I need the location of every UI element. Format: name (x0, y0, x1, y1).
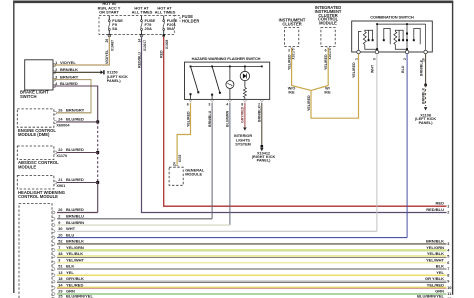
junction dot headlight module pin 21 tap (96, 181, 99, 184)
svg-text:YEL/RED: YEL/RED (427, 283, 444, 288)
svg-text:26: 26 (58, 109, 62, 113)
svg-text:26: 26 (58, 208, 62, 212)
bus junction dot pin 8 (244, 66, 246, 68)
svg-text:1: 1 (55, 61, 57, 65)
svg-text:RED/BLU: RED/BLU (137, 52, 141, 68)
svg-text:9: 9 (373, 58, 377, 60)
svg-text:BRN/BLU: BRN/BLU (66, 214, 84, 219)
LED series resistor (244, 81, 246, 88)
svg-text:YEL: YEL (436, 270, 444, 275)
svg-text:VIO/YEL: VIO/YEL (60, 60, 76, 65)
hazard pin 3 (211, 100, 214, 101)
svg-text:50A: 50A (167, 26, 174, 31)
svg-text:BLU/BRN: BLU/BRN (226, 110, 230, 127)
svg-text:PANEL): PANEL) (107, 79, 122, 83)
svg-text:26: 26 (105, 39, 109, 43)
svg-text:BLK: BLK (436, 264, 444, 269)
wire BLU/RED dashed chain segment to headlight tap (97, 153, 99, 183)
combination switch box (352, 21, 433, 52)
combination switch pin 10 connector (424, 50, 427, 53)
svg-text:6: 6 (447, 261, 449, 265)
svg-text:6: 6 (325, 49, 327, 53)
svg-text:BLU: BLU (66, 232, 74, 237)
wire BLU/RED dashed chain segment to ABS tap (97, 122, 99, 153)
svg-text:YEL/RED: YEL/RED (352, 62, 356, 78)
svg-text:51: 51 (58, 265, 62, 269)
svg-text:29: 29 (58, 290, 62, 294)
wire BLU/BRN hazard pin 4 down to row 9 (229, 103, 231, 226)
brake light switch box (25, 60, 53, 90)
svg-text:GRY/RED: GRY/RED (241, 106, 245, 123)
svg-text:GR Y/BLK: GR Y/BLK (425, 276, 444, 281)
svg-text:ALL TIMES: ALL TIMES (155, 9, 176, 14)
svg-text:7: 7 (447, 267, 449, 271)
svg-text:11: 11 (447, 292, 451, 296)
svg-text:6: 6 (187, 103, 189, 107)
bus junction dot pin 6 (190, 66, 192, 68)
connector X10487 symbol (108, 34, 111, 37)
svg-text:HAZARD WARNING FLASHER SWITCH: HAZARD WARNING FLASHER SWITCH (192, 56, 261, 61)
wire YEL/RED IICCM to junction (311, 49, 328, 91)
wire BRN/GRY brake pin 3 to ECM pin 26 (53, 80, 91, 113)
switch blade 2 (212, 66, 220, 92)
svg-text:3: 3 (58, 258, 60, 262)
svg-text:BRN/GRY: BRN/GRY (60, 75, 79, 80)
wire BLU/RED chain down to bottom row 26 (97, 183, 99, 213)
wire BLU comb pin 2 down to row 20 (406, 54, 408, 238)
svg-text:BLU/RED: BLU/RED (66, 177, 84, 182)
integrated instrument cluster control module box (321, 28, 335, 47)
instrument cluster box (285, 28, 299, 47)
svg-text:X10487: X10487 (111, 40, 115, 51)
svg-text:YEL: YEL (66, 270, 74, 275)
wire row 26 BLU/RED (52, 207, 97, 214)
switch contact stub pin 3 (211, 95, 213, 100)
fuse F9 5A (108, 20, 110, 22)
wire row 25 BLU/BRN/YEL (52, 294, 451, 298)
svg-text:10: 10 (447, 286, 451, 290)
ECM pin 24 (54, 120, 57, 123)
svg-text:YEL/WHT: YEL/WHT (426, 257, 445, 262)
ABS/DSC control module box (17, 146, 54, 160)
svg-text:BLU/RED: BLU/RED (66, 147, 84, 152)
switch blade 1 (191, 66, 199, 92)
wire row 30 WHT (52, 226, 377, 233)
svg-text:52: 52 (58, 240, 62, 244)
svg-text:CONTROL MODULE: CONTROL MODULE (18, 194, 58, 199)
wire row 20 BLU (52, 232, 407, 239)
svg-text:YEL/BLK: YEL/BLK (427, 251, 444, 256)
svg-text:RED: RED (160, 50, 164, 58)
svg-text:BLU/BRN: BLU/BRN (66, 220, 84, 225)
wire BLU/RED ECM pin 24 to chain junction (57, 121, 98, 123)
svg-text:BRN/BLU: BRN/BLU (208, 110, 212, 127)
svg-text:X1170: X1170 (56, 154, 67, 158)
combination switch left contact group (365, 30, 373, 40)
svg-text:X1008: X1008 (165, 40, 169, 49)
fuse F201 feed stub (163, 16, 165, 20)
engine control module box (17, 109, 54, 127)
brake switch pin 2 (53, 71, 56, 74)
fuse F79 lower stub (141, 31, 143, 36)
ABS pin 22 (54, 151, 57, 154)
svg-text:SYSTEM: SYSTEM (235, 143, 251, 147)
wire BRN/BLK hazard pin 2 to ground X10412 (261, 103, 263, 147)
svg-text:BRN/GRY: BRN/GRY (66, 108, 85, 113)
svg-text:IKE: IKE (288, 91, 295, 95)
svg-text:1: 1 (354, 58, 358, 60)
hazard flasher relay module box (tall dashed) (19, 204, 52, 298)
svg-text:BLU/BRN/YEL: BLU/BRN/YEL (417, 294, 444, 298)
svg-text:X60004: X60004 (56, 124, 70, 128)
svg-text:PANEL): PANEL) (257, 159, 272, 163)
ground symbol X1150 (103, 70, 104, 74)
svg-text:YEL/RED: YEL/RED (324, 54, 328, 70)
hazard pin 4 (228, 100, 231, 101)
brake switch pin 3 (53, 78, 56, 81)
wire row 3 YEL/WHT (52, 257, 449, 265)
svg-text:BRN/BLK: BRN/BLK (66, 239, 84, 244)
svg-text:25: 25 (58, 295, 62, 298)
combination switch pin 2 connector (405, 50, 408, 53)
svg-text:5: 5 (447, 255, 449, 259)
svg-text:22: 22 (58, 148, 62, 152)
fuse F79 20A (141, 20, 143, 22)
ground X10412 arrow (260, 148, 263, 151)
svg-text:BLU/RED: BLU/RED (66, 117, 84, 122)
svg-text:BRN/BLK: BRN/BLK (60, 67, 78, 72)
svg-text:20A: 20A (145, 26, 152, 31)
svg-text:3: 3 (447, 242, 449, 246)
border frame left (13, 1, 15, 293)
svg-text:VIO/YEL: VIO/YEL (105, 49, 109, 64)
wire RED fuse F201 down to bottom row (164, 37, 447, 206)
wire BLU/RED headlight pin 21 to chain junction (57, 182, 98, 184)
svg-text:13: 13 (58, 271, 62, 275)
wire row 51 BLK (52, 264, 449, 272)
headlight widening control module box (17, 176, 54, 190)
svg-text:2: 2 (403, 58, 407, 60)
fuse F9 feed stub (108, 16, 110, 20)
ground X10412 junction dot (261, 145, 264, 148)
border frame right (452, 1, 454, 295)
svg-text:X13017: X13017 (143, 40, 147, 51)
svg-text:BLK: BLK (66, 264, 74, 269)
svg-text:BRN/BLK: BRN/BLK (419, 59, 423, 76)
wire BRN/BLK brake pin 2 to ground X1150 (53, 71, 101, 73)
bus junction dot pin 3 (211, 66, 213, 68)
wire YEL/RED instrument cluster to junction (292, 49, 311, 91)
svg-text:YEL/RED: YEL/RED (287, 54, 291, 70)
svg-text:GRY/BLK: GRY/BLK (66, 276, 84, 281)
wire row 18 GRY/BLK (52, 276, 449, 284)
hazard pin 2 (260, 100, 263, 101)
splice S1008 junction dot (163, 34, 165, 36)
ECM pin 26 (54, 111, 57, 114)
general module pin 24 (176, 165, 179, 166)
ground X1108 junction dot (424, 84, 427, 87)
combination switch resistor 1 (363, 32, 366, 45)
svg-text:3: 3 (208, 103, 210, 107)
combination switch pin 9 connector (375, 50, 378, 53)
fuse holder bracket (174, 16, 180, 22)
LED symbol (244, 66, 246, 71)
general module box (169, 167, 183, 185)
svg-text:IKE: IKE (324, 91, 331, 95)
svg-text:MODULE: MODULE (18, 165, 36, 170)
wire YEL/RED junction down to combination switch pin 1 (311, 54, 359, 119)
svg-text:5A: 5A (112, 26, 117, 31)
svg-text:2: 2 (447, 211, 449, 215)
svg-text:BLU/RED: BLU/RED (66, 207, 84, 212)
svg-text:BRN/BLK: BRN/BLK (258, 105, 262, 122)
combination switch right contact group (395, 30, 403, 40)
wire row RED right segment (436, 201, 450, 209)
svg-text:YEL/RED: YEL/RED (186, 111, 190, 127)
svg-text:MODULE (DME): MODULE (DME) (18, 132, 50, 137)
svg-text:MODULE: MODULE (319, 21, 337, 26)
svg-text:BLU/BRN/YEL: BLU/BRN/YEL (66, 294, 93, 298)
fuse F9 lower stub (108, 31, 110, 36)
brake switch pin 4 (53, 84, 56, 87)
indicator lamp (229, 66, 231, 80)
svg-text:YEL/BLK: YEL/BLK (66, 251, 83, 256)
fuse F201 lower stub (163, 31, 165, 36)
svg-text:8: 8 (447, 273, 449, 277)
wire row 29 GRN (52, 289, 451, 297)
hazard switch internal bus (191, 65, 262, 67)
connector X13017 symbol (140, 34, 143, 37)
hazard pin 6 (189, 100, 192, 101)
border frame top (13, 0, 453, 3)
wire row 34 YEL/RED (52, 283, 451, 291)
wire row 9 BLU/BRN (52, 220, 230, 227)
fuse F201 50A (163, 20, 165, 22)
wire BRN/BLU hazard pin 3 down to row 2 (211, 103, 213, 219)
wire BRN/BLK dashed to ground (425, 85, 427, 106)
wire row RED/BLU right label (426, 207, 449, 215)
svg-text:BRN/BLK: BRN/BLK (421, 87, 425, 104)
svg-text:X333: X333 (178, 155, 182, 163)
wire row 2 BRN/BLU (52, 214, 212, 221)
svg-text:SWITCH: SWITCH (20, 94, 37, 99)
svg-text:CLUSTER: CLUSTER (282, 22, 301, 27)
wire RED/BLU fuse F79 down to bottom row (142, 37, 447, 212)
svg-text:BLU/RED: BLU/RED (60, 81, 78, 86)
svg-text:2: 2 (58, 215, 60, 219)
arrow to interior lights system (243, 127, 246, 130)
wire row 13 YEL (52, 270, 449, 278)
combination switch pin 1 connector (357, 50, 360, 53)
wire GRY/RED hazard pin 8 to interior lights system (244, 103, 246, 128)
svg-text:RED/BLU: RED/BLU (426, 207, 444, 212)
combination switch right bottom bar (395, 45, 407, 51)
svg-text:1: 1 (447, 204, 449, 208)
svg-text:BRN/BLK: BRN/BLK (426, 239, 444, 244)
svg-text:OR START: OR START (99, 9, 119, 14)
wire VIO/YEL fuse F9 to brake light switch pin 1 (53, 37, 109, 65)
ground X1108 arrow (424, 107, 427, 110)
wire WHT comb pin 9 down to row 30 (376, 54, 378, 232)
svg-text:3: 3 (55, 76, 57, 80)
fuse holder dashed box (99, 16, 174, 35)
wire row 52 BRN/BLK (52, 239, 449, 247)
svg-text:24: 24 (172, 162, 176, 166)
svg-text:9: 9 (447, 280, 449, 284)
svg-text:WHT: WHT (371, 64, 375, 73)
svg-text:HOLDER: HOLDER (182, 18, 199, 23)
svg-text:9: 9 (58, 221, 60, 225)
svg-text:30: 30 (58, 227, 62, 231)
svg-text:MODULE: MODULE (185, 172, 202, 177)
wire BRN/BLK comb pin 10 to ground X1108 (425, 54, 427, 85)
svg-text:21: 21 (58, 178, 62, 182)
svg-text:3: 3 (288, 49, 290, 53)
svg-text:BLU: BLU (401, 65, 405, 73)
svg-text:YEL/GRN: YEL/GRN (66, 245, 84, 250)
svg-text:YEL/WHT: YEL/WHT (66, 257, 85, 262)
brake switch pin 1 (53, 63, 56, 66)
combination switch inner top line (377, 23, 426, 25)
bus junction dot pin 4 (229, 66, 231, 68)
headlight module pin 21 (54, 181, 57, 184)
wire YEL/RED hazard pin 6 to general module (177, 103, 190, 165)
svg-text:20: 20 (58, 233, 62, 237)
svg-text:48: 48 (58, 252, 62, 256)
svg-text:PANEL): PANEL) (419, 121, 434, 125)
svg-text:COMBINATION SWITCH: COMBINATION SWITCH (370, 15, 414, 20)
wire row 48 YEL/BLK (52, 251, 449, 259)
svg-text:ALL TIMES: ALL TIMES (132, 9, 153, 14)
svg-text:RED: RED (436, 201, 445, 206)
wire BRN/GRY ECM pin 26 stub (57, 112, 91, 114)
junction dot ABS pin 22 tap (96, 151, 99, 154)
svg-text:14: 14 (137, 39, 141, 43)
instrument cluster pin 3 (290, 47, 293, 48)
svg-text:X961: X961 (56, 184, 65, 188)
wire BLU/RED brake pin 4 down to module chain (53, 86, 98, 122)
hazard pin 8 (243, 100, 246, 101)
combination switch resistor 2 (394, 32, 397, 45)
fuse F79 feed stub (141, 16, 143, 20)
hazard warning flasher switch box (185, 62, 270, 99)
svg-text:YEL/GRN: YEL/GRN (426, 245, 444, 250)
svg-text:18: 18 (58, 277, 62, 281)
svg-text:YEL/RED: YEL/RED (66, 283, 83, 288)
svg-text:YEL/RED: YEL/RED (307, 95, 311, 111)
svg-text:8: 8 (241, 103, 243, 107)
svg-text:7: 7 (58, 246, 60, 250)
bus junction dot pin 2 (261, 66, 263, 68)
IICCM pin 6 (327, 47, 330, 48)
combination switch left bottom bar (359, 31, 378, 50)
switch contact stub pin 6 (190, 94, 192, 99)
junction dot ECM pin 24 tap (96, 120, 99, 123)
wire BLU/RED ABS pin 22 to chain junction (57, 152, 98, 154)
wire row 7 YEL/GRN (52, 245, 450, 253)
svg-text:4: 4 (226, 103, 228, 107)
svg-text:4: 4 (55, 82, 57, 86)
svg-text:WHT: WHT (66, 226, 76, 231)
svg-text:2: 2 (55, 68, 57, 72)
